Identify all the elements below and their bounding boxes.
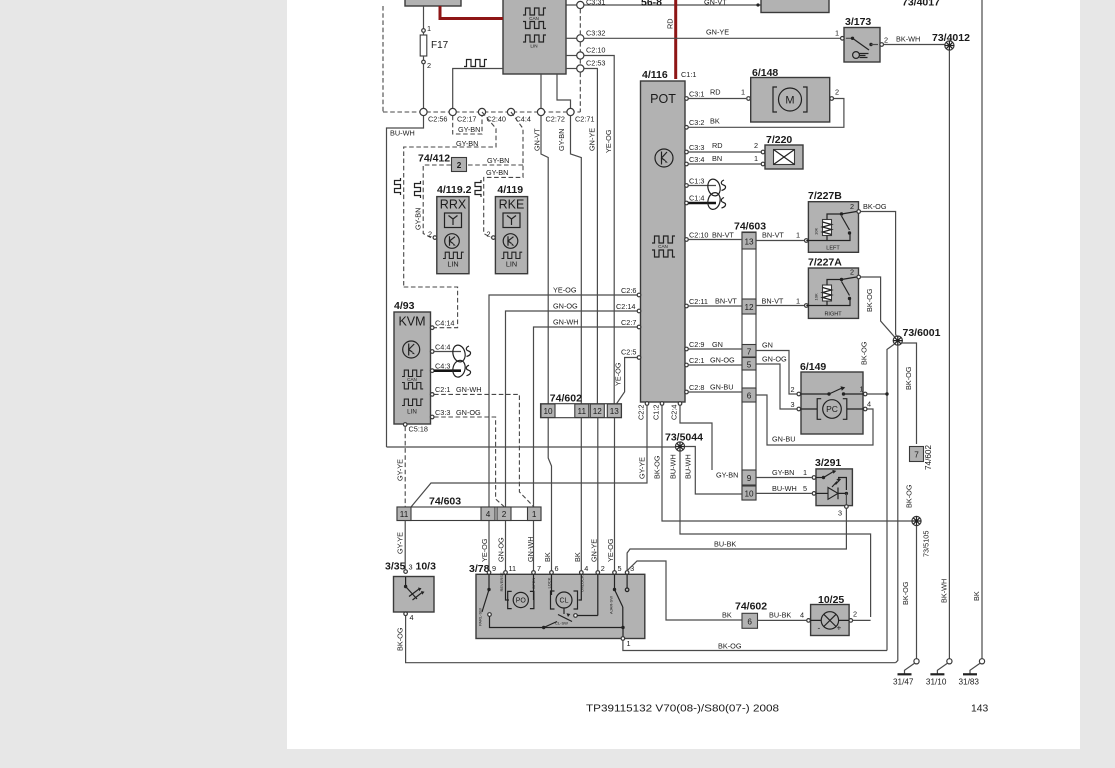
svg-text:C2:10: C2:10 [689,231,708,240]
svg-text:3/173: 3/173 [845,16,871,28]
svg-text:GN-WH: GN-WH [456,385,482,394]
svg-text:2: 2 [457,161,462,170]
svg-text:1: 1 [796,297,800,306]
wire cell6 GN-BU loop to 6/149 pin4 [756,395,873,445]
wire YE-OG vertical [613,112,615,404]
wire BU-WH to 74/603 cell10 [685,447,742,495]
svg-text:GN-WH: GN-WH [526,536,535,562]
svg-text:10: 10 [543,407,553,416]
svg-text:7/227B: 7/227B [808,190,842,202]
wire 3/291 pin3 BU-BK down/left [638,508,846,549]
svg-text:CAN: CAN [529,16,539,21]
svg-text:10: 10 [744,490,754,499]
svg-text:LOCK: LOCK [547,577,552,588]
svg-text:GN-WH: GN-WH [553,318,579,327]
svg-text:GN-YE: GN-YE [706,28,729,37]
svg-text:REVERSE: REVERSE [499,572,504,591]
wire 6/148 return BK to C3:2 [688,99,844,128]
svg-text:73/6001: 73/6001 [903,327,941,339]
svg-text:1: 1 [860,385,864,394]
svg-text:74/603: 74/603 [429,496,461,508]
wire riser to 73/6001 from bottom run [896,345,898,663]
svg-text:C2:40: C2:40 [487,115,506,124]
ground 31/83 [979,659,984,664]
svg-text:BN-VT: BN-VT [715,297,737,306]
wire 6/149 pin1 to BK-OG riser [867,393,887,395]
page background [287,0,1080,749]
wire CEM bottom to C2:71 [557,74,571,112]
wire cell13 BN-VT to 7/227B [756,240,805,242]
svg-text:C2:4: C2:4 [670,405,679,420]
wires below 74/602 to 3/78 pins [548,418,551,573]
svg-text:6: 6 [747,617,752,626]
svg-text:GN-OG: GN-OG [762,355,787,364]
dashed wire C2:1 GN-WH [434,394,534,507]
wire YE-OG C2:6 to 3/78 pin9 [489,295,637,573]
svg-text:31/10: 31/10 [926,678,947,687]
svg-text:2: 2 [835,88,839,97]
svg-text:C2:14: C2:14 [616,302,635,311]
svg-text:C2:11: C2:11 [689,297,708,306]
svg-text:C2:5: C2:5 [621,348,636,357]
wire C2:9 GN to cell 7 [688,348,742,350]
wire fuse feed [423,6,425,29]
wire GN-YE C3:32 to 3/173 [584,37,841,39]
POT right pins [685,97,689,101]
svg-text:LIN: LIN [530,44,537,49]
fuse F17 [420,35,427,56]
svg-text:C1:1: C1:1 [681,70,696,79]
svg-text:LIN: LIN [447,260,458,269]
svg-text:3/78: 3/78 [469,563,490,575]
svg-text:RD: RD [712,141,723,150]
svg-text:9: 9 [492,564,496,573]
dashed CEM boundary vertical [579,9,581,112]
wire BU-BK cell6 to 10/25 pin4 [758,619,807,621]
wire 73/6001 branch down to 6/149 pin1 / 3/78 pin1 riser [887,344,895,651]
svg-text:C2:71: C2:71 [575,115,594,124]
wire C2:10 to YE-OG drop [584,56,614,113]
svg-text:C4:4: C4:4 [435,342,450,351]
svg-text:POT: POT [650,92,676,106]
svg-text:+: + [837,624,842,633]
svg-text:GY-BN: GY-BN [487,156,509,165]
svg-text:74/602: 74/602 [924,445,933,470]
wire C2:4 down to 74/603 cell9 GY-BN [680,405,712,470]
svg-text:GN: GN [762,341,773,350]
wire C3:3 RD to 7/220 [688,151,761,153]
svg-text:4/119: 4/119 [497,184,523,196]
node C2:56 [420,108,427,115]
svg-text:GN-VT: GN-VT [533,128,542,151]
svg-text:1: 1 [754,154,758,163]
svg-text:C3:3: C3:3 [689,143,704,152]
wire BU-WH from C2:56 down left side [387,116,424,447]
node C3:31 [577,1,584,8]
svg-text:74/602: 74/602 [550,393,582,405]
svg-text:11: 11 [509,564,517,573]
svg-text:CL-SW: CL-SW [555,621,568,626]
pin C5:18 [403,423,407,427]
svg-text:CAN: CAN [407,377,417,382]
module 73/4017 top right box [761,0,829,13]
svg-text:BK: BK [710,116,720,125]
svg-text:C4:4: C4:4 [516,115,531,124]
wire GN-VT drop C2:72 [541,116,548,404]
red power wire RD to POT C1:1 [674,0,677,79]
LIN squiggle symbols [395,178,401,195]
svg-text:13: 13 [610,407,620,416]
svg-text:10K: 10K [814,293,819,300]
svg-text:BK-OG: BK-OG [860,341,869,365]
wire squiggle riser C2:17 to CEM [453,69,503,113]
svg-text:BU-WH: BU-WH [669,454,678,479]
twisted pair POT [706,178,722,197]
wire 3/78 pin1 BK-OG run [623,640,887,650]
svg-text:GY-BN: GY-BN [486,168,508,177]
svg-text:2: 2 [428,230,432,239]
dashed bus line [383,111,580,113]
svg-text:C3:1: C3:1 [689,90,704,99]
svg-text:BN: BN [712,154,722,163]
svg-text:2: 2 [791,385,795,394]
wire C1:3 [688,185,716,187]
svg-text:GN-BU: GN-BU [772,435,796,444]
wire BU-WH 73/5044 down to 10/25 loop [680,451,871,617]
node C2:72 [537,108,544,115]
svg-text:CL: CL [560,598,569,605]
wire GN-OG C2:14 to 3/78 pin11 [506,311,638,573]
svg-text:PO: PO [516,598,527,605]
svg-text:C2:72: C2:72 [546,115,565,124]
CEM pin C3:32 [566,37,577,39]
wire C2:1 GN-OG to cell 5 [688,364,742,366]
svg-text:YE-OG: YE-OG [553,286,577,295]
svg-text:4: 4 [867,400,871,409]
svg-text:4/93: 4/93 [394,300,415,312]
svg-text:BU-WH: BU-WH [772,484,797,493]
svg-text:13: 13 [744,238,754,247]
svg-text:2: 2 [502,510,507,519]
wire cell12 BN-VT to 7/227A [756,305,805,307]
svg-text:6/149: 6/149 [800,361,826,373]
svg-text:C2:1: C2:1 [689,356,704,365]
svg-text:-: - [818,624,821,633]
svg-text:56-8: 56-8 [641,0,662,9]
svg-text:GN-OG: GN-OG [553,302,578,311]
svg-text:BU-WH: BU-WH [390,129,415,138]
svg-text:4: 4 [800,611,804,620]
wire GN-YE vertical [596,112,598,404]
svg-text:RKE: RKE [499,198,525,212]
svg-text:YE-OG: YE-OG [480,538,489,562]
connector 74/602 cell7 [910,447,924,462]
svg-text:GN-YE: GN-YE [588,128,597,151]
svg-text:C5:18: C5:18 [409,425,428,434]
svg-text:2: 2 [884,36,888,45]
node C4:4 [507,108,514,115]
svg-text:C2:17: C2:17 [457,115,476,124]
wire BK-OG below 73/5105 to ground [916,526,918,661]
wire YE-OG C2:5 to 74/602 cell13 [617,358,638,404]
svg-text:12: 12 [593,407,603,416]
svg-text:BK: BK [722,611,732,620]
wire C4:4 antenna [434,351,461,353]
svg-text:12: 12 [744,303,754,312]
svg-text:BN-VT: BN-VT [762,297,784,306]
svg-text:31/47: 31/47 [893,678,914,687]
dashed GY-BN from C4:4 [484,112,523,238]
svg-text:3: 3 [791,400,795,409]
svg-text:RD: RD [710,88,721,97]
svg-text:6: 6 [747,392,752,401]
wire C2:11 BN-VT to cell 12 [688,305,742,307]
svg-text:1: 1 [532,510,537,519]
wire cell10 BU-WH to 3/291 pin5 [756,492,812,494]
svg-text:BU-BK: BU-BK [714,540,736,549]
svg-text:AJAR-SW: AJAR-SW [609,596,614,614]
connector 74/412 pin 2 box [452,158,467,172]
wire BU-WH horizontal run [387,446,676,448]
svg-text:6: 6 [555,564,559,573]
svg-text:BU-BK: BU-BK [769,611,791,620]
svg-text:2: 2 [850,268,854,277]
svg-text:GN: GN [712,340,723,349]
svg-text:BK-OG: BK-OG [718,642,742,651]
svg-text:RRX: RRX [440,198,467,212]
svg-text:2: 2 [850,202,854,211]
svg-text:9: 9 [747,474,752,483]
svg-text:PARL-SW: PARL-SW [478,608,483,626]
svg-text:BN-VT: BN-VT [712,231,734,240]
wire CEM bottom to C2:72 [540,74,542,112]
svg-text:7: 7 [537,564,541,573]
svg-text:BK-OG: BK-OG [865,288,874,312]
svg-text:GY-BN: GY-BN [716,471,738,480]
svg-text:C1:3: C1:3 [689,177,704,186]
svg-text:C2:6: C2:6 [621,286,636,295]
svg-text:31/83: 31/83 [959,678,980,687]
svg-text:BK-OG: BK-OG [396,627,405,651]
svg-text:2: 2 [427,61,431,70]
wire BK-WH down right side [948,50,950,660]
twisted pair KVM [451,344,467,363]
svg-text:4: 4 [486,510,491,519]
svg-text:RD: RD [666,18,675,29]
pin C4:14 [430,326,434,330]
svg-text:BK-OG: BK-OG [653,455,662,479]
dashed pair C2:17/C2:40 [453,116,482,134]
svg-text:BK: BK [573,552,582,562]
svg-text:C2:53: C2:53 [586,59,605,68]
svg-text:GN-OG: GN-OG [456,408,481,417]
svg-text:C2:10: C2:10 [586,46,605,55]
svg-text:GY-BN: GY-BN [557,129,566,151]
svg-text:2: 2 [487,230,491,239]
svg-text:3/35: 3/35 [385,561,406,573]
CEM module (cut, CAN/LIN) [503,0,566,74]
svg-text:2: 2 [853,610,857,619]
svg-text:3: 3 [838,509,842,518]
svg-text:4/119.2: 4/119.2 [437,184,472,196]
svg-text:BK-WH: BK-WH [896,35,920,44]
svg-text:BN-VT: BN-VT [762,231,784,240]
wire C4:3 antenna thick [434,369,461,372]
wire 7/227A pin2 BK-OG down [861,277,898,341]
svg-text:GY-YE: GY-YE [396,532,405,554]
svg-text:C2:7: C2:7 [621,318,636,327]
dashed GY-BN from C2:40 to left run [404,112,496,287]
svg-text:LIN: LIN [506,260,517,269]
wire BK from 73/4017 down right side [981,0,983,660]
svg-text:5: 5 [803,484,807,493]
dashed wire C5:18 GY-YE [404,427,406,508]
svg-text:4/116: 4/116 [642,69,668,81]
wire C3:1 RD to 6/148 [688,98,746,100]
svg-text:1: 1 [427,24,431,33]
svg-text:C2:9: C2:9 [689,340,704,349]
dashed boundary left of F17 [382,6,384,112]
wire BK-WH to 73/4012 [884,44,945,46]
node C2:71 [567,108,574,115]
svg-text:C3:32: C3:32 [586,29,605,38]
svg-text:GN-BU: GN-BU [710,383,734,392]
svg-text:C3:4: C3:4 [689,155,704,164]
wire C1:4 thick [688,202,716,205]
svg-text:M: M [785,94,794,106]
svg-text:BK: BK [543,552,552,562]
svg-text:C4:3: C4:3 [435,362,450,371]
svg-text:5: 5 [618,564,622,573]
svg-text:GY-BN: GY-BN [414,208,423,230]
svg-text:C3:2: C3:2 [689,118,704,127]
svg-text:1: 1 [803,468,807,477]
node C2:40 [478,108,485,115]
svg-text:F17: F17 [431,40,449,51]
svg-text:KVM: KVM [398,315,425,329]
svg-text:YE-OG: YE-OG [614,362,623,386]
wire C2:10 BN-VT to cell 13 [688,239,742,241]
svg-text:GY-BN: GY-BN [458,125,480,134]
wire BK-OG C1:2 down to 73/5105 [662,405,912,521]
red power wire to CEM [440,6,503,19]
svg-text:LEFT: LEFT [826,246,840,252]
ground 31/10 [947,659,952,664]
svg-text:GN-OG: GN-OG [496,537,505,562]
svg-text:TP39115132 V70(08-)/S80(07-) 2: TP39115132 V70(08-)/S80(07-) 2008 [586,704,779,715]
svg-text:143: 143 [971,704,988,715]
svg-text:1: 1 [627,639,631,648]
svg-text:C2:56: C2:56 [428,115,447,124]
svg-text:7: 7 [914,451,919,460]
wire 7/227B pin2 BK-OG down [861,212,898,341]
wire C3:4 BN to 7/220 [688,163,761,165]
wire cell5 GN-OG to 6/149 pin3 [756,364,797,409]
svg-text:GN-YE: GN-YE [590,539,599,562]
top-left module (cut) [405,0,461,6]
ground 31/47 [914,659,919,664]
svg-text:PC: PC [826,404,838,414]
dashed antenna enclosure bottom [404,287,458,328]
svg-text:GY-BN: GY-BN [772,468,794,477]
wire GY-BN drop C2:71 [571,116,582,404]
pin C4:3 [430,369,434,373]
svg-text:1: 1 [741,88,745,97]
svg-text:74/412: 74/412 [418,153,450,165]
svg-text:2: 2 [754,141,758,150]
node C2:17 [449,108,456,115]
svg-text:C2:2: C2:2 [637,405,646,420]
svg-text:BK-OG: BK-OG [901,581,910,605]
svg-text:CAN: CAN [658,244,668,249]
svg-text:BK-OG: BK-OG [863,202,887,211]
wire GY-YE C2:2 down to 74/603 cell11 [411,405,647,507]
wire C2:8 GN-BU to cell 6 [688,391,742,393]
svg-text:C4:14: C4:14 [435,319,454,328]
svg-text:4: 4 [584,564,588,573]
svg-text:3/291: 3/291 [815,457,841,469]
diode symbol [816,492,828,494]
svg-text:7/227A: 7/227A [808,257,842,269]
svg-text:RIGHT: RIGHT [824,312,842,318]
svg-text:1: 1 [835,29,839,38]
svg-text:GY-BN: GY-BN [456,139,478,148]
svg-text:74/602: 74/602 [735,601,767,613]
svg-text:BK-OG: BK-OG [904,366,913,390]
POT bottom pins [645,402,649,406]
CEM pin C2:53 [566,68,577,70]
wire 3/78 pin3 to BU-BK run [627,549,742,620]
svg-text:C3:31: C3:31 [586,0,605,7]
wire cell7 GN to 6/149 pin2 [756,351,797,395]
svg-text:73/5044: 73/5044 [665,432,703,444]
svg-text:2: 2 [601,564,605,573]
svg-text:7/220: 7/220 [766,134,792,146]
wire 10/25 pin2 up loop [853,619,871,621]
wire cell9 GY-BN to 3/291 pin1 [756,477,812,479]
svg-text:7: 7 [747,348,752,357]
svg-text:C3:3: C3:3 [435,408,450,417]
wire top C3:31 horizontal [566,4,761,6]
wire C2:53 to GN-YE drop [584,69,598,113]
POT left pins [637,293,641,297]
svg-text:BU-WH: BU-WH [684,454,693,479]
svg-text:GY-YE: GY-YE [638,457,647,479]
CL-SW switch [558,615,572,622]
svg-text:GN-VT: GN-VT [704,0,727,7]
svg-text:YE-OG: YE-OG [606,538,615,562]
svg-text:73/5105: 73/5105 [922,531,931,557]
svg-text:BK-OG: BK-OG [905,484,914,508]
svg-text:YE-OG: YE-OG [604,129,613,153]
dashed wire C3:3 GN-OG [434,417,505,507]
svg-text:C2:1: C2:1 [435,385,450,394]
svg-text:C1:4: C1:4 [689,194,704,203]
pin C2:1 [430,393,434,397]
pin C4:4 [430,350,434,354]
wire 3/35 pin4 BK-OG to bottom run [406,616,896,663]
svg-text:4: 4 [410,613,414,622]
svg-text:73/4017: 73/4017 [902,0,940,9]
svg-text:11: 11 [400,510,409,519]
svg-text:1: 1 [796,231,800,240]
dashed 74/412 branch [423,165,523,238]
svg-text:GN-OG: GN-OG [710,356,735,365]
wire 73/6001 to BK-OG main down [901,343,917,444]
svg-text:C1:2: C1:2 [652,405,661,420]
svg-text:3: 3 [409,563,413,572]
svg-text:10/3: 10/3 [416,561,437,573]
